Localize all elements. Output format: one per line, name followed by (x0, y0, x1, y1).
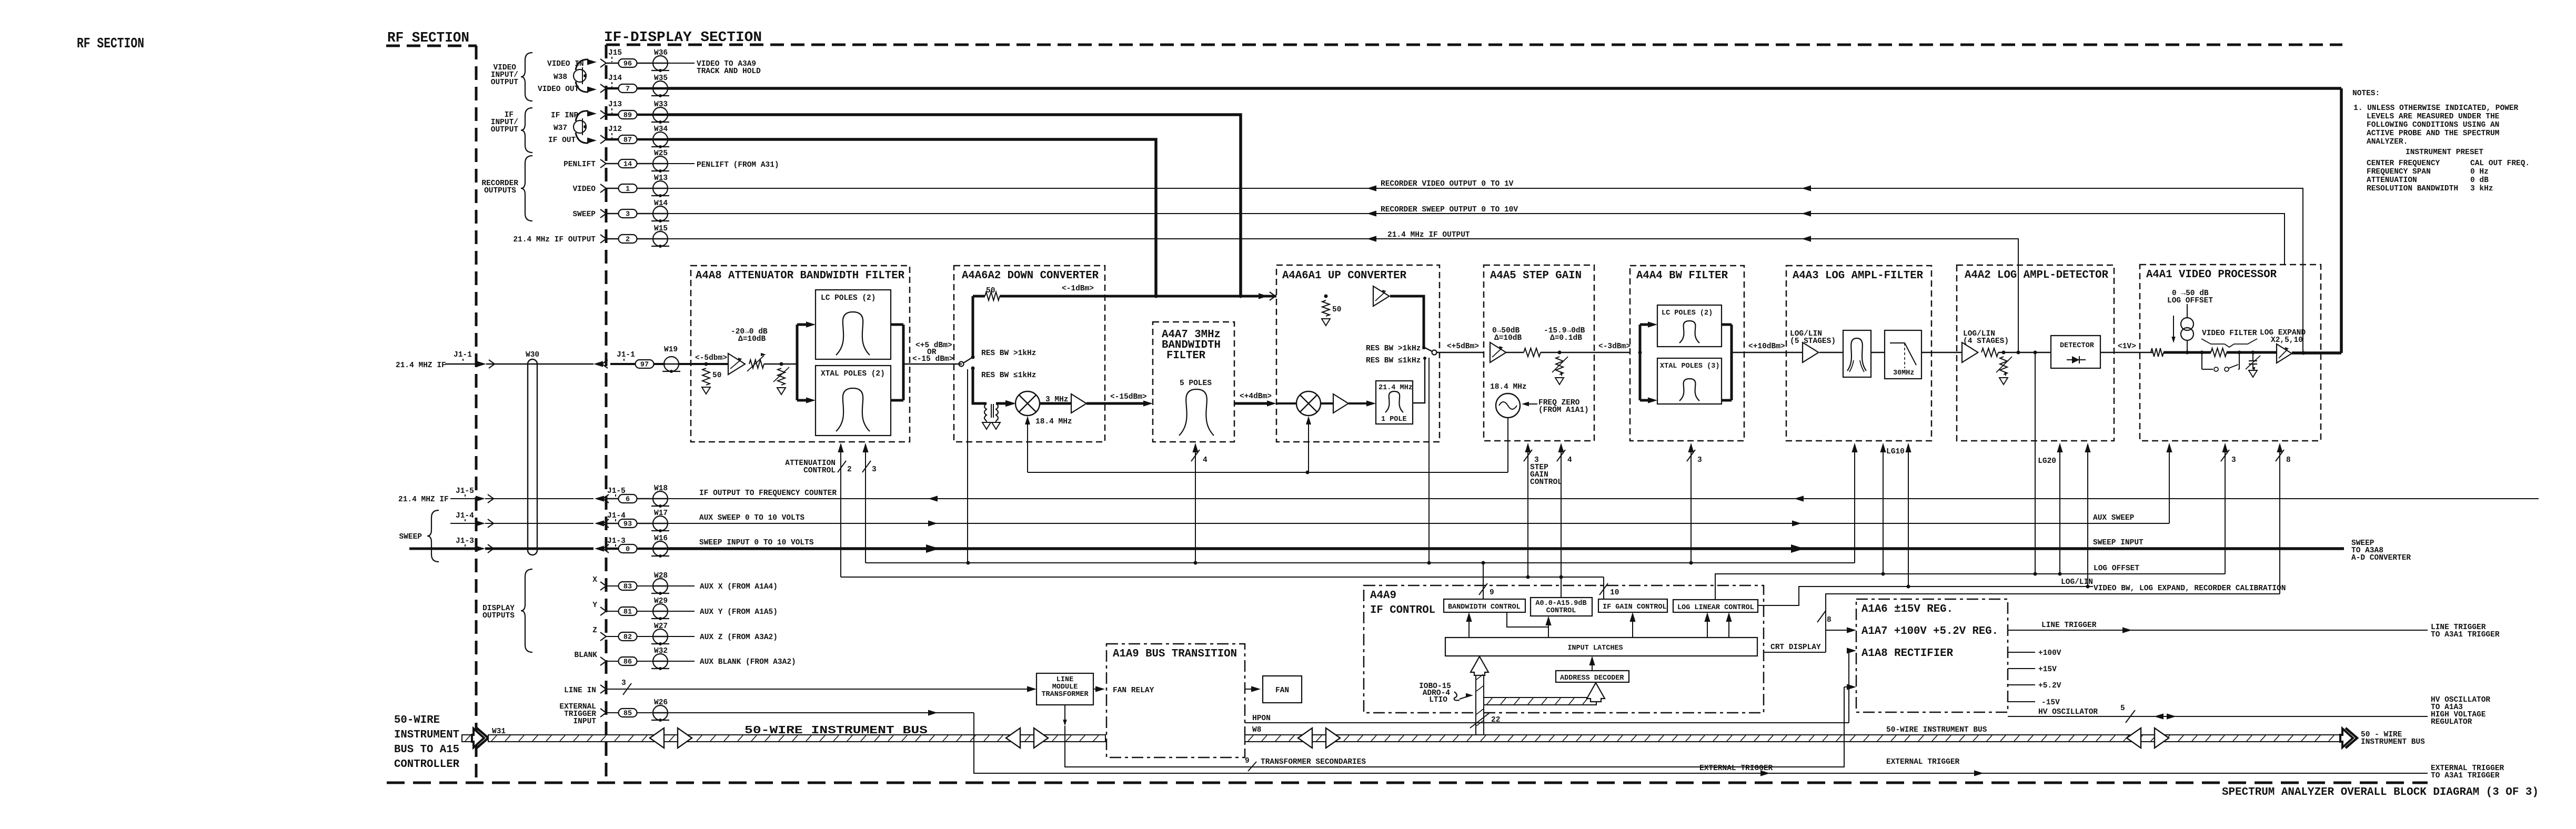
LG20 control b (2087, 444, 2088, 587)
svg-text:CONTROLLER: CONTROLLER (394, 759, 459, 771)
log expand amp (2277, 344, 2292, 363)
mixer A4A6A1 (1296, 391, 1321, 416)
svg-text:TRANSFORMER: TRANSFORMER (1041, 691, 1089, 699)
svg-text:RESOLUTION BANDWIDTH: RESOLUTION BANDWIDTH (2367, 185, 2458, 193)
svg-text:J1-1: J1-1 (617, 351, 635, 359)
svg-text:9: 9 (1490, 589, 1494, 597)
svg-text:<-15 dBm>: <-15 dBm> (912, 355, 953, 363)
control /3 into A4A8 (865, 444, 866, 563)
svg-text:LINE: LINE (1056, 676, 1073, 684)
svg-text:PENLIFT: PENLIFT (563, 160, 596, 169)
svg-text:SPECTRUM ANALYZER OVERALL BLOC: SPECTRUM ANALYZER OVERALL BLOCK DIAGRAM … (2222, 786, 2539, 798)
svg-text:-15V: -15V (2041, 699, 2060, 707)
svg-text:AUX Y (FROM A1A5): AUX Y (FROM A1A5) (700, 608, 778, 616)
CRT DISPLAY line (1764, 652, 1826, 653)
A4A4 output wire (1732, 352, 1803, 353)
pin oval 85 (606, 712, 619, 713)
amp (A4A6A1) (1333, 394, 1349, 413)
FAN box (1263, 676, 1302, 703)
A4A5 box (1484, 265, 1594, 441)
bandwidth control line A (866, 562, 1855, 563)
arrow into A1A9 (1093, 689, 1099, 690)
svg-text:RES BW ≤1kHz: RES BW ≤1kHz (981, 371, 1036, 380)
svg-text:J1-1: J1-1 (454, 351, 472, 359)
A1A6 box (1856, 599, 2008, 712)
svg-text:LC POLES (2): LC POLES (2) (821, 294, 876, 302)
HPON line (1245, 722, 1849, 723)
video bw riser (1826, 594, 2280, 652)
30MHz low pass box (1885, 330, 1921, 379)
bypass switch (2201, 352, 2202, 369)
svg-text:Δ=10dB: Δ=10dB (1494, 334, 1522, 342)
svg-text:REGULATOR: REGULATOR (2431, 718, 2472, 726)
low pass response (1890, 343, 1916, 365)
arrow into LC poles (797, 323, 806, 326)
LC poles bell curve (836, 312, 870, 355)
mixer input wire (1276, 402, 1297, 405)
svg-text:IF OUT: IF OUT (548, 136, 576, 145)
A4A7 box (1153, 322, 1234, 442)
upper contact dot (971, 356, 975, 359)
svg-text:Δ=0.1dB: Δ=0.1dB (1550, 334, 1582, 342)
ext trigger wire (667, 712, 974, 713)
switch lever (963, 357, 973, 363)
log offset control /3 (2225, 444, 2226, 574)
arrows into pole boxes (A4A4) (1640, 323, 1648, 326)
series resistor (A4A2) (1981, 348, 1998, 357)
LINE MODULE TRANSFORMER box (1037, 673, 1093, 705)
lower contact heavy path (973, 368, 987, 403)
control /4 into A4A7 (1195, 444, 1196, 563)
wire IF output to freq counter (667, 498, 2539, 499)
svg-text:W38: W38 (554, 73, 567, 82)
video out riser (heavy) (2340, 88, 2343, 353)
J1-5 RF border arrows (476, 496, 485, 501)
svg-text:8: 8 (1827, 616, 1832, 624)
svg-text:<-3dBm>: <-3dBm> (1598, 342, 1631, 351)
svg-text:OUTPUTS: OUTPUTS (484, 187, 516, 195)
svg-text:OUTPUTS: OUTPUTS (482, 612, 515, 620)
+100V stub (2008, 652, 2035, 653)
svg-text:IF CONTROL: IF CONTROL (1370, 604, 1435, 616)
junction dots line B (1526, 575, 1530, 579)
J1-5 left wire (450, 498, 476, 499)
svg-text:14: 14 (623, 161, 632, 169)
svg-text:MODULE: MODULE (1052, 683, 1078, 691)
svg-text:RES BW ≤1kHz: RES BW ≤1kHz (1366, 357, 1421, 365)
line A drop to bandwidth control box (1483, 563, 1484, 599)
svg-text:J15: J15 (608, 49, 622, 57)
top line y563 with series resistor (973, 295, 985, 298)
svg-text:RES BW >1kHz: RES BW >1kHz (1366, 345, 1421, 353)
svg-text:W37: W37 (554, 124, 567, 133)
input junction (A4A4) (1638, 351, 1642, 355)
transformer primary coil (984, 403, 987, 421)
svg-text:96: 96 (623, 60, 632, 68)
wire amp to A4A7 (heavy) (1086, 402, 1144, 405)
svg-text:SWEEP: SWEEP (572, 210, 596, 219)
crystal filter box (A4A3) (1843, 330, 1871, 377)
ground (input shunt) (702, 387, 710, 394)
svg-text:J1-4: J1-4 (456, 512, 474, 520)
pin oval 2 (606, 238, 619, 239)
bus left stub band (462, 735, 472, 742)
svg-text:82: 82 (623, 634, 632, 642)
chevron at border row 3 (600, 209, 606, 218)
LOG LINEAR CONTROL box (1673, 600, 1758, 612)
arrow into XTAL poles (797, 399, 806, 402)
step gain control (1527, 444, 1528, 577)
junction dot shunt (A4A2) (2002, 351, 2006, 355)
chevron Z (600, 632, 606, 641)
svg-text:XTAL POLES (2): XTAL POLES (2) (821, 370, 885, 378)
chevron Y (600, 607, 606, 615)
wire video out (heavy, row 7) (667, 87, 2341, 90)
LOG LIN line (1758, 587, 2093, 605)
svg-text:+100V: +100V (2038, 649, 2061, 658)
A4A8 output wire (903, 363, 962, 365)
svg-text:AUX X (FROM A1A4): AUX X (FROM A1A4) (700, 583, 778, 591)
LG10 control a (1883, 444, 1884, 574)
svg-text:Y: Y (592, 601, 597, 610)
junction dot input (705, 362, 708, 366)
arrowheads recorder sweep (1367, 210, 1376, 216)
A4A6A2 box (954, 266, 1105, 442)
A4A2 output wire (2100, 352, 2152, 353)
svg-text:8: 8 (2286, 456, 2291, 464)
svg-text:2: 2 (626, 236, 630, 244)
svg-text:1. UNLESS OTHERWISE INDICATED,: 1. UNLESS OTHERWISE INDICATED, POWER (2353, 104, 2519, 113)
svg-text:RECORDER VIDEO OUTPUT 0 TO 1V: RECORDER VIDEO OUTPUT 0 TO 1V (1381, 180, 1514, 188)
svg-text:EXTERNAL TRIGGER: EXTERNAL TRIGGER (1699, 764, 1773, 773)
junction dots log lin line (1907, 585, 1910, 589)
bus arrows pair 1 (650, 728, 664, 748)
chevron at border row 1 (600, 184, 606, 193)
amplifier A4A8 (728, 353, 745, 375)
INPUT LATCHES box (1445, 638, 1757, 656)
transformer grounds (986, 421, 987, 422)
svg-text:LINE IN: LINE IN (564, 686, 596, 695)
svg-text:A1A6 ±15V REG.: A1A6 ±15V REG. (1861, 603, 1953, 615)
HV OSCILLATOR line (2008, 716, 2428, 717)
svg-text:5: 5 (2120, 704, 2125, 713)
A4A4 box (1630, 266, 1744, 441)
wire to 30MHz box (1871, 352, 1885, 353)
LOG OFFSET line (1715, 574, 2225, 600)
IF GAIN CONTROL box (1598, 599, 1667, 612)
chevron at border row 89 (600, 110, 606, 119)
svg-text:IF INP: IF INP (551, 112, 579, 120)
log offset feed vertical (2035, 352, 2036, 574)
svg-text:BLANK: BLANK (574, 651, 597, 660)
svg-text:AUX SWEEP: AUX SWEEP (2093, 514, 2135, 522)
svg-text:A1A9 BUS TRANSITION: A1A9 BUS TRANSITION (1113, 648, 1237, 660)
A1A7 feed line (1826, 630, 1851, 631)
svg-text:A4A8 ATTENUATOR BANDWIDTH FILT: A4A8 ATTENUATOR BANDWIDTH FILTER (696, 270, 904, 282)
svg-text:50: 50 (1332, 306, 1341, 314)
svg-text:CAL OUT FREQ.: CAL OUT FREQ. (2470, 159, 2530, 168)
svg-text:OUTPUT: OUTPUT (491, 126, 519, 134)
bus arrows pair 4 (2127, 728, 2141, 748)
svg-text:ANALYZER.: ANALYZER. (2367, 138, 2408, 146)
brace recorder outputs (521, 156, 532, 221)
svg-text:+5.2V: +5.2V (2038, 682, 2061, 690)
svg-text:LOG OFFSET: LOG OFFSET (2167, 297, 2213, 305)
channel slash 22 (1470, 713, 1489, 728)
svg-text:AUX Z (FROM A3A2): AUX Z (FROM A3A2) (700, 633, 778, 642)
switch lever (A4A6A1) (1425, 348, 1432, 351)
svg-text:97: 97 (640, 361, 649, 369)
aux sweep control (2169, 444, 2170, 523)
svg-text:50: 50 (986, 287, 995, 295)
pin oval 83 (606, 585, 619, 587)
pin oval 93 (606, 523, 619, 524)
pin oval 14 (606, 163, 619, 164)
svg-text:LC POLES (2): LC POLES (2) (1662, 309, 1713, 317)
fat arrow into input latches (1471, 656, 1488, 675)
arrow into line module transformer (1027, 686, 1037, 692)
svg-text:4: 4 (1567, 456, 1572, 464)
video filter pointer (2201, 339, 2225, 344)
18.4 MHz oscillator (1496, 393, 1520, 418)
svg-text:<1V>: <1V> (2118, 342, 2136, 351)
ground (var cap) (2249, 370, 2257, 377)
+15V stub (2008, 668, 2035, 669)
amp (A4A2) (1962, 342, 1978, 362)
crystal filter curve (1847, 338, 1866, 371)
external trigger long line (974, 713, 2428, 773)
decoder to latches arrow (1592, 658, 1593, 671)
svg-text:CONTROL: CONTROL (1546, 607, 1576, 615)
svg-text:Z: Z (592, 626, 597, 635)
bus arrows pair 3 (1298, 728, 1312, 748)
bus left segment (488, 735, 1105, 742)
junction dot offset (2186, 351, 2189, 355)
svg-text:93: 93 (623, 521, 632, 529)
amp (A4A3) (1803, 342, 1818, 362)
svg-text:TRANSFORMER SECONDARIES: TRANSFORMER SECONDARIES (1261, 758, 1366, 766)
svg-text:<-5dbm>: <-5dbm> (695, 354, 727, 362)
arrowheads aux sweep row (928, 520, 938, 526)
chevron BLANK (600, 657, 606, 665)
arrow into mixer (996, 402, 1006, 405)
svg-text:LINE TRIGGER: LINE TRIGGER (2041, 621, 2097, 630)
svg-text:<+4dBm>: <+4dBm> (1240, 392, 1272, 401)
svg-text:21.4 MHZ IF: 21.4 MHZ IF (398, 496, 449, 504)
control /3 (A4A4) (1690, 444, 1692, 563)
svg-text:W8: W8 (1252, 726, 1261, 734)
arrow into 1 pole box (1349, 402, 1367, 405)
svg-text:89: 89 (623, 112, 632, 120)
svg-text:50-WIRE: 50-WIRE (394, 714, 440, 726)
wire into A4A8 (678, 363, 728, 365)
svg-text:VIDEO BW, LOG EXPAND, RECORDER: VIDEO BW, LOG EXPAND, RECORDER CALIBRATI… (2094, 584, 2286, 593)
svg-text:86: 86 (623, 659, 632, 666)
detector diode (2067, 359, 2086, 360)
J1-4 crossing wire (485, 523, 593, 524)
LC bell (A4A4) (1679, 321, 1699, 343)
svg-text:1 POLE: 1 POLE (1381, 416, 1407, 423)
svg-text:ATTENUATION: ATTENUATION (2367, 176, 2417, 185)
svg-text:6: 6 (626, 496, 630, 504)
HV opposing arrows (2154, 713, 2164, 719)
bus big arrow right (2340, 729, 2353, 747)
svg-text:VIDEO FILTER: VIDEO FILTER (2202, 329, 2257, 338)
svg-text:A4A2 LOG AMPL-DETECTOR: A4A2 LOG AMPL-DETECTOR (1965, 269, 2108, 281)
switch control vertical (A4A6A2) (967, 369, 968, 563)
RF section top border (386, 45, 477, 47)
svg-text:A4A6A1 UP CONVERTER: A4A6A1 UP CONVERTER (1282, 270, 1406, 282)
switch output wire (1436, 352, 1484, 353)
shunt variable resistor (778, 368, 785, 385)
wire Z (667, 636, 695, 637)
svg-text:CONTROL: CONTROL (1530, 478, 1562, 487)
junction dots log offset line (1881, 572, 1885, 576)
J1-4 left wire (450, 523, 476, 524)
svg-text:5 POLES: 5 POLES (1180, 379, 1212, 388)
bottom section border (387, 782, 2428, 784)
wire penlift (667, 163, 695, 164)
J1-4 RF border arrows (476, 520, 485, 526)
svg-text:SWEEP INPUT: SWEEP INPUT (2093, 539, 2144, 547)
svg-text:18.4 MHz: 18.4 MHz (1035, 418, 1072, 426)
svg-text:1: 1 (626, 186, 630, 194)
top line to corner (1390, 296, 1424, 349)
A4A7 output wire (1234, 402, 1267, 405)
W38 loopback symbol (573, 69, 586, 82)
output stubs (A4A4) (1722, 323, 1732, 326)
bandwidth jog line (1507, 612, 1548, 627)
LC POLES (2) box (A4A4) (1657, 305, 1722, 347)
pin oval 89 (606, 114, 619, 116)
W37 loopback symbol (573, 120, 586, 133)
chevron at border row 14 (600, 159, 606, 168)
wire sweep input (heavy) (667, 547, 2344, 550)
output heavy wire (2292, 351, 2341, 355)
LO path from mixer (1027, 418, 1028, 472)
hatched channel vertical (1476, 675, 1484, 735)
svg-text:18.4 MHz: 18.4 MHz (1490, 383, 1527, 391)
pin oval 86 (606, 661, 619, 662)
brace video input/output (521, 53, 532, 101)
junction dot 2 (780, 362, 783, 366)
series resistor in (A4A1) (2151, 348, 2164, 357)
LINE TRIGGER line (2008, 630, 2428, 631)
svg-text:<+10dBm>: <+10dBm> (1748, 342, 1785, 351)
svg-text:W19: W19 (664, 346, 678, 354)
svg-text:A0.0-A15.9dB: A0.0-A15.9dB (1535, 600, 1586, 608)
channel corner patch (1476, 697, 1483, 704)
svg-text:3: 3 (872, 466, 877, 474)
svg-text:NOTES:: NOTES: (2352, 89, 2380, 98)
video filter resistor (2211, 348, 2227, 357)
latch to A0 arrow (1548, 618, 1549, 638)
svg-text:TO A3A1 TRIGGER: TO A3A1 TRIGGER (2431, 631, 2500, 639)
svg-text:<-15dBm>: <-15dBm> (1110, 393, 1147, 401)
svg-text:INSTRUMENT: INSTRUMENT (394, 729, 459, 741)
svg-text:A4A1 VIDEO PROCESSOR: A4A1 VIDEO PROCESSOR (2146, 269, 2277, 281)
wire IF INP (heavy, row 89) (667, 115, 1241, 296)
arrowheads IF output row (1367, 236, 1376, 241)
svg-text:3: 3 (2231, 456, 2236, 464)
svg-text:A1A7 +100V +5.2V REG.: A1A7 +100V +5.2V REG. (1861, 625, 1998, 638)
svg-text:21.4 MHz IF OUTPUT: 21.4 MHz IF OUTPUT (1387, 231, 1470, 239)
svg-text:A4A4 BW FILTER: A4A4 BW FILTER (1636, 270, 1728, 282)
svg-text:3: 3 (626, 211, 630, 219)
HPON riser to A1A6 (1848, 651, 1849, 723)
HV slash 5 (2126, 710, 2135, 723)
svg-text:HPON: HPON (1252, 714, 1271, 723)
arrowheads freq counter row (928, 496, 938, 501)
svg-text:RF SECTION: RF SECTION (387, 31, 469, 46)
wire mixer to amp (A4A6A1) (1321, 402, 1333, 405)
svg-text:J14: J14 (608, 74, 622, 83)
W30 cable loop (528, 359, 537, 364)
svg-text:87: 87 (623, 137, 632, 145)
J1-3 crossing wire (485, 548, 593, 550)
svg-text:FAN: FAN (1275, 686, 1289, 695)
A4A3 box (1786, 266, 1931, 441)
transformer core (991, 404, 992, 418)
transformer secondary coil (996, 403, 998, 421)
fat arrow into address decoder (1587, 683, 1605, 702)
chevron X (600, 582, 606, 590)
svg-text:LOG LINEAR CONTROL: LOG LINEAR CONTROL (1677, 604, 1754, 612)
svg-text:J13: J13 (608, 100, 622, 109)
+5.2V stub (2008, 684, 2035, 685)
variable attenuator (749, 360, 764, 368)
svg-text:3: 3 (1697, 456, 1702, 464)
output bar (heavy vertical) (902, 325, 905, 400)
XTAL poles bell curve (836, 388, 870, 431)
wire recorder video (row 1) (667, 188, 2303, 353)
pin oval 1 (606, 188, 619, 189)
svg-text:AUX SWEEP 0 TO 10 VOLTS: AUX SWEEP 0 TO 10 VOLTS (699, 514, 804, 522)
wire 21.4 MHz IF output (row 2) (667, 239, 2018, 352)
svg-text:83: 83 (623, 583, 632, 591)
RF section right border (dashed vertical) (475, 46, 478, 783)
wire main IF input (445, 363, 476, 365)
J1-5 IF border arrows (595, 496, 604, 501)
bus arrows pair 2 (1006, 728, 1020, 748)
svg-text:A-D CONVERTER: A-D CONVERTER (2351, 554, 2411, 562)
amp 3MHz (1071, 394, 1086, 413)
wire recorder sweep (row 3) (667, 214, 2285, 265)
chevron at border row 96 (600, 59, 606, 67)
svg-text:X: X (592, 576, 597, 584)
transformer to bus line (1064, 705, 1065, 722)
A4A9 box (1364, 585, 1764, 713)
svg-text:XTAL POLES (3): XTAL POLES (3) (1660, 362, 1719, 370)
pin oval 87 (606, 138, 619, 141)
LO stub (A4A6A1 mixer) (1306, 416, 1311, 424)
svg-text:PENLIFT (FROM A31): PENLIFT (FROM A31) (697, 161, 779, 169)
J1-3 left wire (409, 548, 476, 550)
21.4 MHz 1 pole filter box (1376, 381, 1413, 424)
LG20 control a (2059, 444, 2060, 574)
wire between borders (main IF) (486, 363, 593, 365)
latch to log linear arrows (1707, 614, 1708, 638)
arrowheads recorder video (1367, 185, 1376, 191)
svg-text:Δ=10dB: Δ=10dB (738, 335, 766, 343)
wire to pin 97 (610, 363, 636, 365)
A4A6A1 box (1276, 265, 1440, 442)
svg-text:3: 3 (621, 679, 626, 688)
svg-text:IF OUTPUT TO FREQUENCY COUNTER: IF OUTPUT TO FREQUENCY COUNTER (699, 489, 837, 498)
1 pole bell (1385, 391, 1403, 412)
S hook to channel (1454, 692, 1460, 701)
svg-text:2: 2 (847, 466, 852, 474)
